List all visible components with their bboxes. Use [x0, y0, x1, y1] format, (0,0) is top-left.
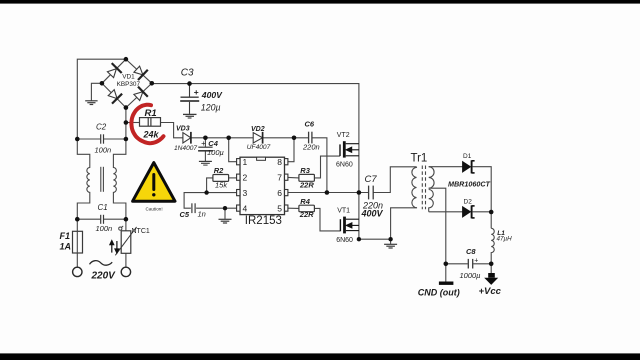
capacitor C7 — [369, 186, 374, 200]
node: C8 left — [444, 262, 449, 267]
svg-text:VT2: VT2 — [337, 132, 350, 139]
wire: pin4 ground stem — [224, 208, 226, 219]
wire: NTC1 leads — [125, 219, 127, 231]
IC notch — [257, 157, 266, 160]
wire: R4 right lead to VT1 gate — [314, 208, 340, 231]
svg-text:C3: C3 — [181, 67, 194, 78]
capacitor C8 — [468, 259, 472, 269]
wire: R1 right lead to VD3 row — [161, 123, 183, 138]
svg-text:100µ: 100µ — [207, 148, 224, 157]
AC tilde symbol — [90, 261, 113, 266]
IC U1 IR2153 body — [240, 157, 285, 214]
MOSFET VT2 — [340, 141, 359, 157]
choke core line 1 — [100, 167, 102, 192]
node: pin8 riser tap — [292, 136, 297, 141]
choke L right winding path — [113, 139, 126, 219]
bottom letterbox bar — [0, 353, 640, 360]
transformer Tr1 primary winding — [391, 167, 417, 239]
thermistor NTC1 — [121, 231, 131, 254]
wire: C8 row right segment — [473, 263, 491, 265]
svg-text:C6: C6 — [305, 119, 315, 128]
bridge diode bottom-right — [134, 87, 148, 101]
GND out terminal bar — [439, 282, 454, 285]
wire: AC rail from bridge bottom node down — [125, 108, 127, 139]
wire: pin1 riser — [229, 138, 237, 162]
svg-text:Caution!: Caution! — [146, 206, 163, 211]
svg-text:1N4007: 1N4007 — [174, 145, 197, 152]
choke core line 2 — [102, 167, 104, 192]
wire: R2 left lead down to pin3 row — [207, 178, 213, 193]
resistor R1 — [140, 118, 161, 127]
svg-text:6N60: 6N60 — [336, 162, 353, 169]
svg-text:47µH: 47µH — [497, 236, 513, 243]
svg-text:6: 6 — [277, 188, 282, 198]
svg-text:D2: D2 — [464, 198, 473, 205]
node: primary return — [388, 237, 392, 241]
node: C3 tap — [187, 81, 192, 86]
svg-text:C2: C2 — [96, 123, 107, 132]
wire: F1 leads — [76, 219, 78, 231]
inductor L1 winding — [491, 228, 494, 263]
svg-text:NTC1: NTC1 — [132, 228, 150, 235]
svg-text:400V: 400V — [361, 208, 384, 218]
svg-text:IR2153: IR2153 — [245, 215, 282, 227]
capacitor C2 — [101, 134, 104, 143]
wire: secondary bottom to D2 — [429, 211, 463, 213]
svg-text:15k: 15k — [215, 180, 228, 189]
choke L left winding path — [77, 139, 90, 219]
node: R1 tap — [124, 120, 129, 125]
svg-text:R2: R2 — [214, 166, 224, 175]
svg-text:3: 3 — [243, 188, 248, 198]
wire: VT2 source to VT1 drain riser — [358, 144, 360, 240]
wire: R1 left lead — [126, 122, 140, 124]
svg-text:Tr1: Tr1 — [411, 152, 428, 164]
svg-text:+Vcc: +Vcc — [479, 286, 502, 297]
wire: C1 row right segment — [104, 218, 126, 220]
bridge diode bottom-left — [108, 90, 122, 104]
svg-text:VD1: VD1 — [122, 73, 135, 80]
node: bridge bottom — [124, 105, 129, 110]
transformer Tr1 secondary bottom winding — [429, 190, 434, 212]
fuse F1 — [73, 231, 83, 253]
wire: R3 right lead to VT2 gate — [314, 156, 340, 178]
svg-text:MBR1060CT: MBR1060CT — [448, 179, 491, 188]
node: bridge top — [124, 57, 129, 62]
svg-text:24k: 24k — [143, 129, 160, 139]
node: pin4 ground tap — [223, 206, 227, 210]
svg-text:C7: C7 — [365, 174, 378, 185]
node: rectifier output — [489, 210, 494, 215]
bridge diode top-left — [107, 63, 121, 78]
svg-text:VD2: VD2 — [251, 126, 265, 133]
wire: D2 cathode to node — [473, 211, 492, 213]
NTC arrows up/down — [110, 241, 119, 253]
bridge rectifier VD1 diamond — [102, 59, 152, 107]
node: C2 left — [75, 137, 80, 142]
node: C1 right — [124, 217, 129, 222]
node: half-bridge midpoint — [357, 190, 362, 195]
resistor R2 — [213, 175, 229, 182]
caution exclamation — [152, 175, 155, 190]
capacitor C6 — [309, 132, 312, 144]
svg-text:C1: C1 — [98, 203, 108, 212]
svg-text:UF4007: UF4007 — [247, 144, 271, 151]
svg-text:2: 2 — [243, 172, 248, 182]
node: bridge left — [100, 81, 105, 86]
svg-text:6N60: 6N60 — [336, 237, 353, 244]
svg-text:D1: D1 — [463, 153, 472, 160]
diode VD3 — [183, 132, 191, 144]
svg-text:1n: 1n — [198, 210, 206, 219]
wire: VT1 source to primary return — [359, 238, 391, 240]
node: pin1 riser tap — [226, 136, 231, 141]
wire: left rail top from bridge top node — [77, 59, 126, 139]
svg-text:5: 5 — [277, 203, 282, 213]
svg-text:VD3: VD3 — [176, 125, 190, 132]
svg-text:100n: 100n — [95, 146, 112, 155]
diode VD2 — [253, 132, 262, 144]
node: VT1 source corner — [357, 237, 361, 241]
ground at primary return — [384, 244, 397, 248]
svg-text:1000µ: 1000µ — [460, 271, 481, 280]
svg-text:C8: C8 — [466, 247, 476, 256]
svg-text:+: + — [201, 139, 206, 148]
svg-text:220n: 220n — [302, 143, 320, 152]
node: C1 left — [75, 217, 80, 222]
svg-text:7: 7 — [277, 172, 282, 182]
node: R2 to pin3 row — [204, 190, 208, 194]
svg-text:22R: 22R — [299, 210, 314, 219]
node: C2 right — [124, 137, 129, 142]
svg-text:R3: R3 — [300, 166, 310, 175]
wire: +Vcc stem — [490, 264, 492, 273]
svg-text:22R: 22R — [299, 180, 314, 189]
terminal circle right — [121, 267, 130, 276]
wire: C1 row left segment — [77, 218, 100, 220]
node: C4 tap — [203, 136, 208, 141]
wire: VD3 to C4 node to VD2 — [191, 137, 253, 139]
wire: R2 right lead to pin2 — [229, 177, 237, 179]
resistor R3 — [299, 174, 315, 181]
svg-text:100n: 100n — [96, 224, 113, 233]
top letterbox bar — [0, 0, 640, 4]
capacitor C5 — [192, 203, 195, 213]
svg-text:220V: 220V — [91, 270, 117, 281]
wire: C6 right to VS riser — [312, 138, 327, 193]
caution triangle — [133, 163, 175, 202]
svg-text:+: + — [474, 257, 478, 264]
wire: R4 left lead from pin5 — [288, 207, 299, 209]
capacitor C4 — [198, 147, 213, 165]
wire: C8 row left segment — [446, 263, 468, 265]
svg-text:1A: 1A — [60, 242, 72, 252]
bridge diode top-right — [134, 66, 148, 80]
wire: C4 stem and ground stem — [204, 138, 206, 147]
wire: C7 right to primary top — [373, 167, 416, 193]
ground at pin4 — [219, 219, 232, 223]
svg-text:R1: R1 — [145, 108, 157, 119]
diode D2 — [463, 205, 475, 218]
wire: R3 left lead from pin7 — [288, 176, 299, 179]
+Vcc arrow — [484, 273, 498, 285]
MOSFET VT1 — [340, 217, 359, 234]
svg-text:C5: C5 — [180, 210, 190, 219]
node: C6 riser at VS row — [325, 190, 330, 195]
svg-text:R4: R4 — [300, 197, 310, 206]
svg-text:4: 4 — [243, 203, 248, 213]
svg-text:1: 1 — [243, 157, 248, 167]
node: C8 right — [489, 262, 494, 267]
capacitor C1 — [101, 215, 104, 224]
IC pin boxes left — [237, 159, 288, 212]
ground at bridge — [85, 101, 97, 105]
wire: pin8 riser — [288, 138, 294, 162]
capacitor C3 — [180, 84, 199, 118]
terminal circle left — [73, 267, 82, 276]
node: bridge right — [150, 81, 155, 86]
wire: bridge left node to ground — [91, 83, 102, 100]
svg-text:VT1: VT1 — [337, 208, 350, 215]
svg-text:+: + — [194, 87, 199, 97]
wire: C5 to pin4 — [196, 207, 237, 209]
wire: secondary top to D1 — [429, 166, 463, 168]
svg-text:KBP307: KBP307 — [117, 81, 141, 88]
svg-text:8: 8 — [277, 157, 282, 167]
wire: pin3 row to C5 — [184, 193, 237, 209]
wire: top DC rail to VT2 drain riser — [152, 84, 359, 144]
wire: VD2 cathode to C6 — [263, 137, 308, 139]
transformer Tr1 core dashed lines — [421, 166, 423, 210]
wire: GND out stem — [445, 264, 447, 282]
resistor R4 — [299, 205, 315, 212]
transformer Tr1 secondary top winding — [429, 167, 434, 189]
svg-text:400V: 400V — [201, 90, 223, 100]
IC pin numbers — [243, 157, 283, 213]
svg-text:120µ: 120µ — [201, 102, 221, 112]
wire: D1 cathode to output rail — [473, 167, 492, 212]
svg-text:CND (out): CND (out) — [418, 287, 460, 297]
wire: node to L1 — [490, 212, 492, 228]
wire: C2 row left segment — [77, 138, 100, 140]
wire: primary return ground stem — [390, 239, 392, 244]
diode D1 — [463, 160, 475, 173]
red marker circle around R1 — [131, 105, 163, 143]
svg-text:F1: F1 — [60, 231, 71, 241]
wire: C2 row right segment — [104, 138, 126, 140]
wire: midpoint row pin6 to C7 — [288, 192, 368, 194]
wire: center tap down to C8 row — [429, 188, 446, 264]
